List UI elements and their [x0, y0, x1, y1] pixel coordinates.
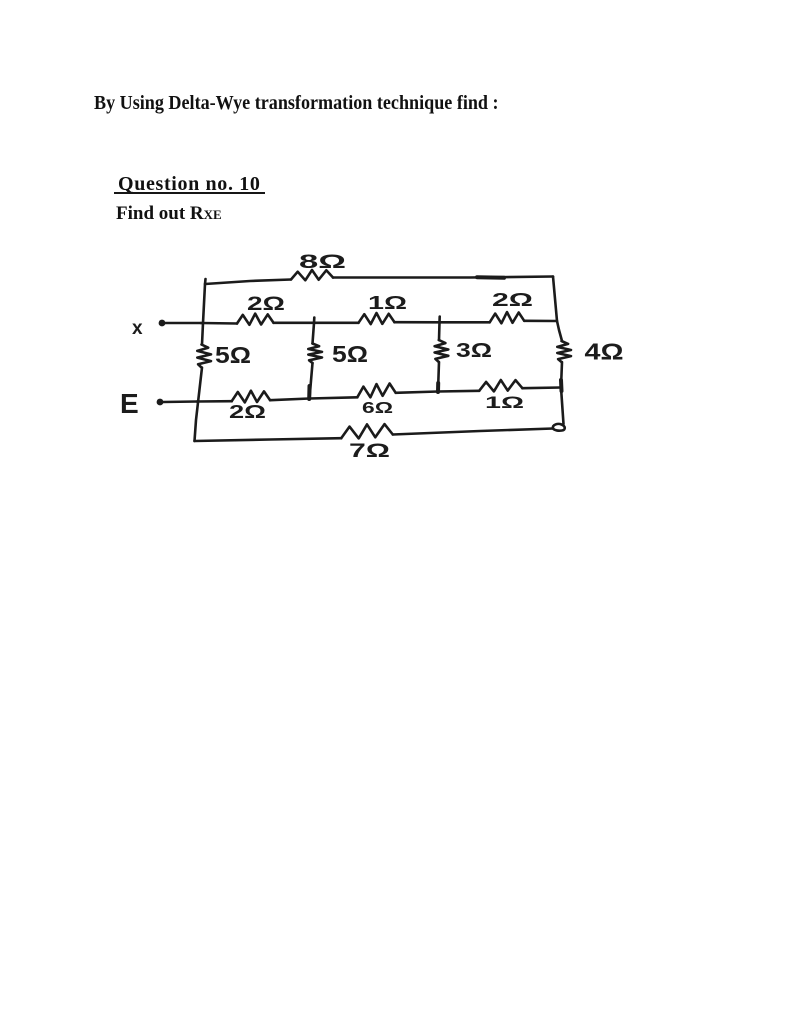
wire left vertical upper segment (top-left corner down through X row) — [202, 279, 206, 345]
corner loop bottom-right — [553, 424, 565, 431]
wire E row segment 1 (left vertical to 2ohm) — [197, 400, 232, 403]
wire top branch right thick overlap segment — [477, 275, 504, 280]
wire X row segment 4 (to right vertical) — [524, 319, 557, 322]
resistor 8ohm (top branch) — [291, 270, 333, 280]
svg-text:7Ω: 7Ω — [349, 441, 390, 462]
wire X row segment 3 (1ohm to 2ohm right) — [395, 321, 490, 324]
wire X row segment 1 (left vertical to 2ohm) — [201, 322, 237, 325]
line "Find out RXE" — [116, 204, 222, 223]
wire bottom branch right (7ohm to bottom-right corner) — [393, 429, 553, 435]
node X terminal dot — [159, 320, 166, 327]
junction tick third vertical / E row — [436, 383, 440, 392]
resistor 1ohm (X row middle) — [359, 313, 395, 324]
resistor 2ohm (E row left) — [232, 391, 270, 403]
svg-text:2Ω: 2Ω — [492, 290, 533, 310]
svg-text:8Ω: 8Ω — [299, 252, 346, 273]
wire X row segment 2 (2ohm to 1ohm) — [274, 321, 359, 324]
wire right vertical lower (to bottom-right corner) — [561, 362, 564, 424]
wire left vertical lower segment (to bottom-left corner) — [195, 368, 203, 442]
wire third vertical upper (junction nub at X row down to 3ohm) — [438, 317, 441, 341]
junction tick second vertical / E row — [307, 386, 311, 399]
wire second vertical lower (5ohm to E row) — [310, 363, 313, 399]
svg-text:x: x — [132, 318, 143, 339]
node E terminal dot — [157, 399, 164, 406]
wire third vertical lower (3ohm to E row) — [438, 362, 439, 392]
svg-text:1Ω: 1Ω — [368, 293, 407, 313]
resistor 2ohm (X row right) — [490, 312, 525, 323]
wire top branch left (top-left corner to 8ohm) — [205, 280, 291, 285]
wire right vertical upper (top-right corner through X row) — [553, 277, 562, 342]
svg-text:2Ω: 2Ω — [247, 294, 285, 315]
svg-text:3Ω: 3Ω — [456, 340, 492, 362]
wire E row segment 4 (1ohm to right vertical) — [522, 386, 561, 389]
underline under Question no. 10 — [114, 192, 265, 194]
resistor 5ohm (second vertical) — [308, 344, 322, 364]
wire second vertical upper (junction nub at X row down to 5ohm) — [313, 318, 315, 344]
svg-text:E: E — [120, 388, 139, 419]
svg-text:5Ω: 5Ω — [215, 342, 251, 368]
svg-text:5Ω: 5Ω — [332, 341, 368, 367]
wire bottom branch left (bottom-left corner to 7ohm) — [195, 438, 342, 441]
svg-text:2Ω: 2Ω — [229, 402, 266, 422]
wire E row segment 2 (2ohm to 6ohm) — [270, 397, 357, 400]
wire from X dot to left vertical — [165, 322, 201, 325]
resistor 4ohm (right vertical) — [557, 341, 571, 362]
svg-text:4Ω: 4Ω — [585, 339, 624, 365]
wire from E dot to left vertical — [163, 400, 197, 403]
resistor 7ohm (bottom branch) — [341, 424, 393, 438]
resistor 6ohm (E row middle) — [357, 384, 395, 398]
heading line — [94, 93, 499, 113]
resistor 3ohm (third vertical) — [435, 340, 449, 362]
wire E row segment 3 (6ohm to 1ohm) — [396, 391, 480, 393]
junction tick E row / right vertical — [559, 380, 564, 391]
resistor 2ohm (X row left) — [237, 314, 274, 325]
svg-text:6Ω: 6Ω — [362, 400, 393, 417]
resistor 5ohm (left vertical) — [197, 345, 211, 368]
svg-text:1Ω: 1Ω — [485, 393, 524, 412]
wire top branch right (8ohm to top-right corner) — [333, 277, 553, 278]
resistor 1ohm (E row right) — [479, 380, 522, 391]
sub heading "Question no. 10" — [118, 174, 261, 194]
